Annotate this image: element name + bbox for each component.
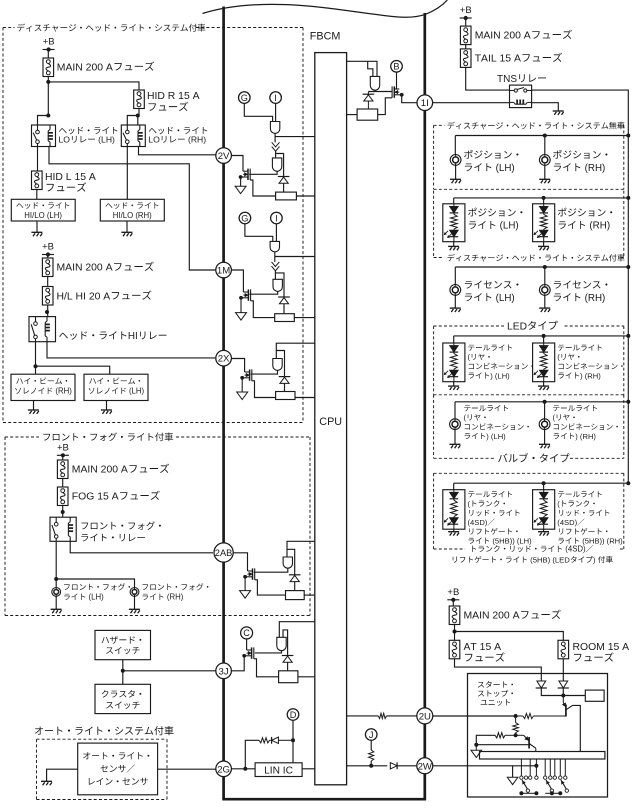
svg-text:FOG 15 A: FOG 15 A — [72, 492, 119, 503]
wire branch to LH solenoid — [36, 366, 110, 374]
wire TNS coil to ground — [532, 103, 559, 111]
wire RH relay switch to HI/LO RH unit — [126, 147, 128, 200]
wire chevron to AND2 (1M) — [274, 271, 276, 280]
unit cluster switch — [95, 684, 151, 713]
wire LH relay coil to 1M riser — [49, 147, 217, 271]
svg-text:+B: +B — [460, 5, 472, 16]
wire fog relay switch to lamps — [55, 541, 57, 587]
relay front fog light — [50, 517, 76, 541]
wire TAIL fuse to TNS relay — [466, 67, 510, 90]
svg-text:MAIN 200 A: MAIN 200 A — [475, 31, 531, 42]
connector 1I — [417, 95, 433, 111]
svg-text:(LH): (LH) — [96, 134, 115, 144]
ground position LH 2 — [453, 242, 455, 247]
LED module trunk light LH — [453, 483, 455, 490]
wire +B to MAIN fuse — [47, 50, 49, 59]
wire to RH relay switch pin — [127, 116, 138, 126]
ground tail bulb LH — [454, 430, 456, 445]
svg-text:1I: 1I — [421, 98, 429, 109]
wire R3 to CPU — [295, 397, 315, 399]
bulb license light RH — [544, 267, 546, 285]
wire diodes to node — [541, 688, 585, 696]
and-gate U1a (2V) — [270, 122, 279, 134]
wire fog relay coil to 2AB — [70, 541, 213, 553]
wire CPU to 2W with diode — [347, 765, 388, 767]
svg-text:2U: 2U — [419, 711, 431, 722]
wire R6 to MOSFET gate path — [378, 98, 392, 115]
junction node above fog relay — [61, 510, 65, 514]
bulb tail light LH — [454, 402, 456, 419]
wire diode to resistor — [283, 183, 285, 192]
wire LH relay switch to HID L fuse — [37, 147, 39, 172]
wire Q2 gate to resistor (1M) — [251, 301, 275, 318]
fuse ROOM 15 A — [558, 640, 569, 659]
ground position RH 2 — [543, 242, 545, 247]
wire CPU to AND (3J) — [279, 622, 315, 638]
svg-text:LED: LED — [507, 321, 527, 332]
svg-text:(RH): (RH) — [587, 221, 610, 232]
svg-text:2G: 2G — [217, 764, 230, 775]
wire fuse to junction — [47, 77, 49, 116]
svg-text:HI: HI — [128, 331, 138, 342]
hook input (1I) — [368, 61, 373, 76]
buffer chevrons (1M) — [272, 262, 280, 267]
wire Q3 gate to resistor (2X) — [252, 381, 276, 398]
wire CPU to AND (1I) — [347, 61, 377, 76]
relay headlight LO (LH) — [32, 125, 56, 147]
bulb tail light RH — [544, 402, 546, 419]
svg-text:HID R 15 A: HID R 15 A — [147, 91, 200, 102]
svg-text:CPU: CPU — [319, 416, 342, 428]
wire 2G to LIN IC — [231, 768, 255, 770]
unit headlight HI/LO (RH) — [100, 199, 164, 221]
label fog light RH — [142, 583, 208, 590]
wire R5 to CPU — [298, 676, 315, 678]
wire fuse junction — [454, 625, 456, 641]
label license light LH — [465, 281, 519, 289]
svg-text:HI/LO (RH): HI/LO (RH) — [113, 211, 152, 220]
wire AND out to MOSFET gate (1I) — [374, 90, 376, 91]
ground position LH 1 — [455, 165, 457, 179]
fuse TAIL 15 A — [460, 49, 471, 68]
ground under solenoid LH — [106, 401, 108, 411]
fog light bulb LH — [52, 588, 61, 597]
wire RH relay coil to 2V — [139, 147, 217, 155]
wire sensor to 2G — [158, 768, 216, 770]
junction node on D wire — [291, 738, 295, 742]
node C (3J block) — [241, 627, 253, 639]
wire between fuses — [47, 277, 49, 287]
wire B to MOSFET drain — [396, 72, 398, 89]
svg-text:J: J — [369, 730, 374, 740]
label tail light LH (LED) — [468, 344, 512, 350]
svg-text:LO: LO — [59, 134, 71, 144]
connector 2G — [216, 761, 232, 777]
label headlight HI relay — [59, 331, 126, 339]
fuse AT 15 A — [449, 640, 460, 659]
junction node on 2G wire — [243, 767, 247, 771]
and-gate U4 (2AB) — [283, 557, 292, 568]
resistor box R5 (3J) — [279, 671, 298, 683]
wire LIN IC to CPU — [302, 768, 315, 770]
svg-text:): ) — [593, 555, 598, 564]
fuse MAIN 200 A (HI beam) — [42, 258, 53, 277]
svg-text:MAIN 200 A: MAIN 200 A — [57, 263, 113, 274]
feed wire trunk/liftgate — [454, 482, 629, 484]
node I (1M block) — [271, 212, 283, 224]
connector 2AB — [214, 543, 233, 562]
label: trunk lid light 4SD (line 1) — [472, 545, 562, 552]
wire G to AND gate — [244, 103, 272, 121]
and-gate U1b (2V) — [272, 158, 281, 171]
feed wire position lights 2 — [454, 197, 629, 199]
wire HID L fuse to HI/LO LH unit — [36, 190, 38, 200]
wire +B to MAIN fuse 3 — [62, 455, 64, 460]
svg-text:ROOM 15 A: ROOM 15 A — [573, 642, 630, 653]
resistor box R4 (2AB) — [286, 591, 305, 600]
svg-text:2W: 2W — [418, 761, 433, 772]
svg-text:(LH): (LH) — [86, 593, 104, 602]
ground license RH — [544, 295, 546, 308]
node D — [287, 709, 299, 721]
node I (2V block) — [270, 92, 282, 104]
feed wire tail bulb — [455, 401, 628, 403]
wire CPU to AND (2X) — [276, 343, 315, 358]
MOSFET Q1 (2V) — [247, 169, 249, 180]
dashed box: auto light system equipped — [37, 738, 168, 740]
label: front fog light equipped — [43, 433, 173, 442]
svg-text:LO: LO — [148, 134, 160, 144]
gnd arrow under Q3 (2X) — [241, 378, 243, 392]
unit high-beam solenoid (RH) — [11, 374, 75, 400]
svg-text:(5HB) (LED: (5HB) (LED — [528, 555, 570, 564]
relay headlight LO (RH) — [121, 125, 145, 147]
unit high-beam solenoid (LH) — [84, 374, 148, 400]
LED module position light LH — [453, 198, 455, 204]
label: without discharge system — [447, 122, 624, 130]
fog light bulb RH — [130, 588, 139, 597]
wire 2W into unit — [433, 765, 536, 767]
label headlight LO relay LH — [59, 127, 117, 134]
svg-text:TAIL 15 A: TAIL 15 A — [475, 54, 521, 65]
svg-text:) (RH): ) (RH) — [575, 432, 596, 441]
junction node hazard/cluster — [121, 669, 125, 673]
fuse MAIN 200 A (bottom) — [449, 606, 460, 625]
node B (1I block) — [391, 61, 403, 73]
and-gate U2a (1M) — [270, 241, 279, 252]
wire HI relay coil to 2X — [47, 342, 215, 358]
wire diode to resistor (1M) — [283, 304, 285, 314]
label: with discharge system — [447, 254, 624, 262]
MOSFET Q5 (3J) — [251, 647, 253, 658]
ground tail LED LH — [453, 382, 455, 386]
wire hazard to 3J — [122, 660, 124, 685]
wire C to MOSFET drain (3J) — [246, 639, 248, 650]
svg-text:LIN IC: LIN IC — [264, 766, 293, 777]
svg-text:HI/LO (LH): HI/LO (LH) — [24, 211, 62, 220]
wire +B to MAIN fuse (bottom) — [452, 600, 454, 606]
wire Q1 gate to resistor R (2V) — [250, 180, 275, 196]
label tail light RH (bulb) — [553, 405, 597, 411]
wire junction to HID R fuse — [48, 82, 139, 90]
ground tail LED RH — [543, 382, 545, 386]
wire I to AND gate (1M) — [275, 224, 277, 242]
sub-block box (in unit) — [585, 690, 604, 701]
diode D1 (2V) — [278, 176, 290, 178]
label tail light LH (bulb) — [464, 405, 508, 411]
svg-text:(RH): (RH) — [186, 134, 207, 144]
svg-text:) (RH): ) (RH) — [580, 371, 601, 380]
wire AT fuse into unit — [455, 659, 542, 681]
wavy torn-edge top line — [203, 0, 448, 17]
wire TNS switch to lamp rail — [532, 90, 629, 483]
wire 2X to MOSFET drain — [231, 359, 245, 373]
svg-text:D: D — [290, 710, 297, 720]
ground for sensor — [41, 780, 52, 782]
ground tail bulb RH — [544, 430, 546, 445]
svg-text:I: I — [275, 213, 278, 223]
wire 2U into unit to T1 base — [433, 715, 516, 717]
svg-text:1M: 1M — [217, 266, 230, 277]
label fog light relay — [81, 521, 161, 530]
svg-text:MAIN 200 A: MAIN 200 A — [57, 62, 113, 73]
LIN IC box — [255, 763, 302, 777]
label: bulb type — [498, 453, 569, 462]
long connector bar (in unit) — [480, 752, 605, 760]
junction node solenoid branch — [34, 364, 38, 368]
connector 2V — [216, 148, 232, 164]
wire I to AND gate — [275, 103, 277, 121]
dashed box: LED type tail lights — [434, 325, 504, 327]
ground under fog RH — [134, 596, 136, 609]
switch lower contacts — [526, 789, 529, 792]
label: liftgate light 5HB (line 2) — [453, 556, 527, 563]
label start-stop unit — [478, 681, 513, 688]
wire AND out to MOSFET gate (3J) — [255, 651, 282, 653]
connector 2U — [417, 708, 433, 724]
wire D to LIN IC — [292, 720, 294, 763]
wire G to AND gate (1M) — [245, 224, 273, 242]
diode ROOM (in unit) — [559, 681, 568, 688]
switch blades — [522, 780, 528, 789]
label fog light LH — [64, 583, 130, 590]
ground TNS — [553, 110, 564, 112]
svg-text:+B: +B — [43, 37, 55, 48]
MOSFET Q4 (2AB) — [252, 568, 254, 579]
wire 2AB to MOSFET drain — [232, 553, 248, 571]
wire node to T2 base — [476, 744, 529, 746]
start-stop unit box — [468, 674, 608, 798]
MOSFET Q6 (1I) — [393, 86, 395, 97]
junction node on 2W wire — [369, 764, 373, 768]
dashed box: front fog light equipped — [5, 436, 39, 438]
fuse MAIN 200 A (fog) — [57, 460, 68, 479]
fuse HID L 15 A — [32, 171, 43, 190]
svg-text:(5HB)) (RH): (5HB)) (RH) — [580, 537, 623, 546]
relay headlight HI — [29, 317, 56, 342]
svg-text:+B: +B — [42, 242, 54, 253]
wire +B to MAIN fuse (right) — [465, 18, 467, 26]
switch common wires — [521, 792, 536, 794]
resistor box R6 (1I) — [357, 109, 378, 120]
wire R1 to CPU — [296, 195, 314, 197]
wire R2 to CPU — [294, 317, 315, 319]
resistor R_b2 (unit) — [505, 734, 515, 736]
unit headlight HI/LO (LH) — [11, 199, 75, 221]
junction node fog lamp branch — [54, 577, 58, 581]
and-gate U6 (1I) — [370, 76, 379, 90]
CPU box — [315, 53, 347, 785]
buffer chevrons (2V) — [272, 142, 280, 147]
fuse H/L HI 20 A — [42, 287, 53, 306]
wire AND out to MOSFET gate (2X) — [251, 370, 278, 374]
connector 2X — [216, 350, 232, 366]
headlight switch contacts (in unit) — [520, 776, 523, 779]
ground trunk LH — [453, 529, 455, 532]
junction node above HI relay — [45, 310, 49, 314]
svg-text:+B: +B — [447, 587, 459, 598]
svg-text:2X: 2X — [218, 354, 230, 365]
wire AND out to MOSFET gate (2AB) — [254, 568, 288, 572]
ground license LH — [454, 295, 456, 308]
ground under HI/LO LH — [36, 221, 38, 232]
label position light LH (bulb) — [464, 150, 518, 159]
svg-text:G: G — [241, 93, 248, 103]
node above LO relay RH — [136, 114, 140, 118]
svg-text:(RH): (RH) — [165, 593, 184, 602]
wire between right fuses — [465, 45, 467, 49]
wire AND2 out to MOSFET gate (1M) — [250, 291, 278, 294]
diode (LIN wake) — [270, 739, 272, 741]
wire chevron to AND2 — [275, 151, 277, 158]
svg-text:(RH): (RH) — [582, 293, 605, 304]
diode D5 (3J) — [282, 655, 294, 657]
svg-text:AT 15 A: AT 15 A — [464, 642, 502, 653]
label: auto light system equipped — [35, 726, 174, 735]
wire AND2 out to MOSFET gate — [249, 171, 277, 174]
ground under HI/LO RH — [126, 221, 128, 232]
gnd arrow under Q1 (2V) — [240, 177, 242, 186]
svg-text:(LH): (LH) — [497, 221, 519, 232]
and-gate U5 (3J) — [277, 637, 286, 650]
feed wire tail LED — [454, 335, 629, 337]
wire 3J to MOSFET source — [231, 656, 244, 671]
svg-text:H/L HI 20 A: H/L HI 20 A — [57, 291, 111, 302]
node G (1M block) — [239, 212, 251, 224]
label position light RH (LED) — [558, 208, 612, 217]
svg-text:(4SD): (4SD) — [557, 518, 577, 527]
wire branch to RH fog lamp — [56, 579, 134, 588]
diode D2 (1M) — [278, 296, 290, 298]
and-gate U2b (1M) — [273, 279, 282, 291]
resistor box R2 (1M) — [275, 314, 295, 322]
wire HI relay switch to solenoids — [35, 342, 37, 375]
diode D4 (2AB) — [289, 574, 301, 576]
bulb position light RH — [544, 136, 546, 155]
LED module position light RH — [543, 198, 545, 204]
gnd arrow under Q4 (2AB) — [244, 577, 246, 591]
wire diode to resistor (3J) — [287, 662, 289, 671]
feed wire license lights — [455, 266, 628, 268]
MOSFET Q2 (1M) — [247, 289, 249, 300]
diode AT (in unit) — [537, 681, 546, 688]
wire node up to resistor/diode — [245, 740, 259, 769]
wire AND1 out / to CPU — [274, 133, 276, 142]
svg-text:G: G — [241, 213, 248, 223]
wire Q6 to 1I — [402, 95, 418, 103]
connector 2W — [417, 758, 433, 774]
wire sensor to ground — [47, 769, 78, 781]
svg-text:2AB: 2AB — [215, 548, 233, 558]
wire junction to ROOM fuse — [455, 632, 564, 641]
feedback bracket to diode (2AB) — [287, 549, 295, 575]
node J — [365, 729, 377, 741]
svg-text:C: C — [243, 628, 250, 638]
ground under solenoid RH — [33, 401, 35, 411]
LED module tail light RH — [543, 336, 545, 343]
svg-text:FBCM: FBCM — [310, 31, 341, 43]
dashed box: with discharge headlight system (LED position) — [433, 191, 435, 258]
bulb license light LH — [454, 267, 456, 285]
transistor T2 (PNP, in unit) — [516, 734, 524, 736]
svg-text:+B: +B — [57, 442, 69, 453]
FBCM right bus (thick vertical) — [423, 13, 426, 799]
svg-text:) (LH): ) (LH) — [490, 371, 510, 380]
dashed box: without discharge headlight system — [434, 124, 445, 126]
resistor box R1 (2V) — [276, 192, 297, 200]
wire +B to MAIN fuse 2 — [47, 255, 49, 259]
unit auto light sensor / rain sensor — [78, 743, 158, 795]
wire to LH relay switch pin — [38, 116, 49, 126]
wire ROOM fuse into unit — [562, 659, 564, 681]
wire to bulb LH / bulb position light LH — [454, 136, 456, 155]
connector 1M — [216, 262, 232, 278]
wire AND1 out / to CPU (1M) — [274, 252, 276, 262]
fuse MAIN 200 A (discharge) — [43, 58, 54, 77]
node above LO relay LH — [46, 114, 50, 118]
resistor box R3 (2X) — [276, 392, 295, 400]
wire 1I to TNS coil — [432, 102, 509, 104]
svg-text:(4SD): (4SD) — [468, 518, 488, 527]
wire FOG fuse to fog relay — [62, 506, 64, 518]
MOSFET Q3 (2X) — [249, 369, 251, 380]
wire fuse to HI relay — [47, 305, 49, 317]
relay TNS — [510, 85, 532, 108]
svg-text:3J: 3J — [219, 666, 229, 677]
ground position RH 1 — [544, 165, 546, 179]
label position light LH (LED) — [468, 208, 522, 217]
svg-text:I: I — [274, 93, 277, 103]
svg-text:(RH): (RH) — [582, 163, 605, 174]
label trunk light LH — [468, 491, 512, 497]
wire 1M to MOSFET drain — [231, 270, 244, 292]
label trunk light RH — [558, 491, 602, 497]
label license light RH — [554, 281, 608, 289]
label tail light RH (LED) — [558, 344, 602, 350]
feed wire position lights 1 — [455, 135, 628, 137]
svg-text:(RH): (RH) — [53, 387, 72, 396]
feedback bracket to diode (1M) — [275, 273, 284, 297]
svg-text:) (LH): ) (LH) — [486, 432, 506, 441]
wire Q5 gate to resistor (3J) — [254, 659, 279, 677]
unit hazard switch — [95, 630, 151, 659]
svg-text:(LH): (LH) — [493, 293, 515, 304]
transistor T1 (PNP, in unit) — [562, 696, 564, 703]
dashed box: bulb type tail lights — [433, 395, 435, 459]
fuse FOG 15 A — [57, 487, 68, 506]
svg-text:MAIN 200 A: MAIN 200 A — [464, 611, 520, 622]
resistor (LIN wake) — [259, 738, 270, 743]
